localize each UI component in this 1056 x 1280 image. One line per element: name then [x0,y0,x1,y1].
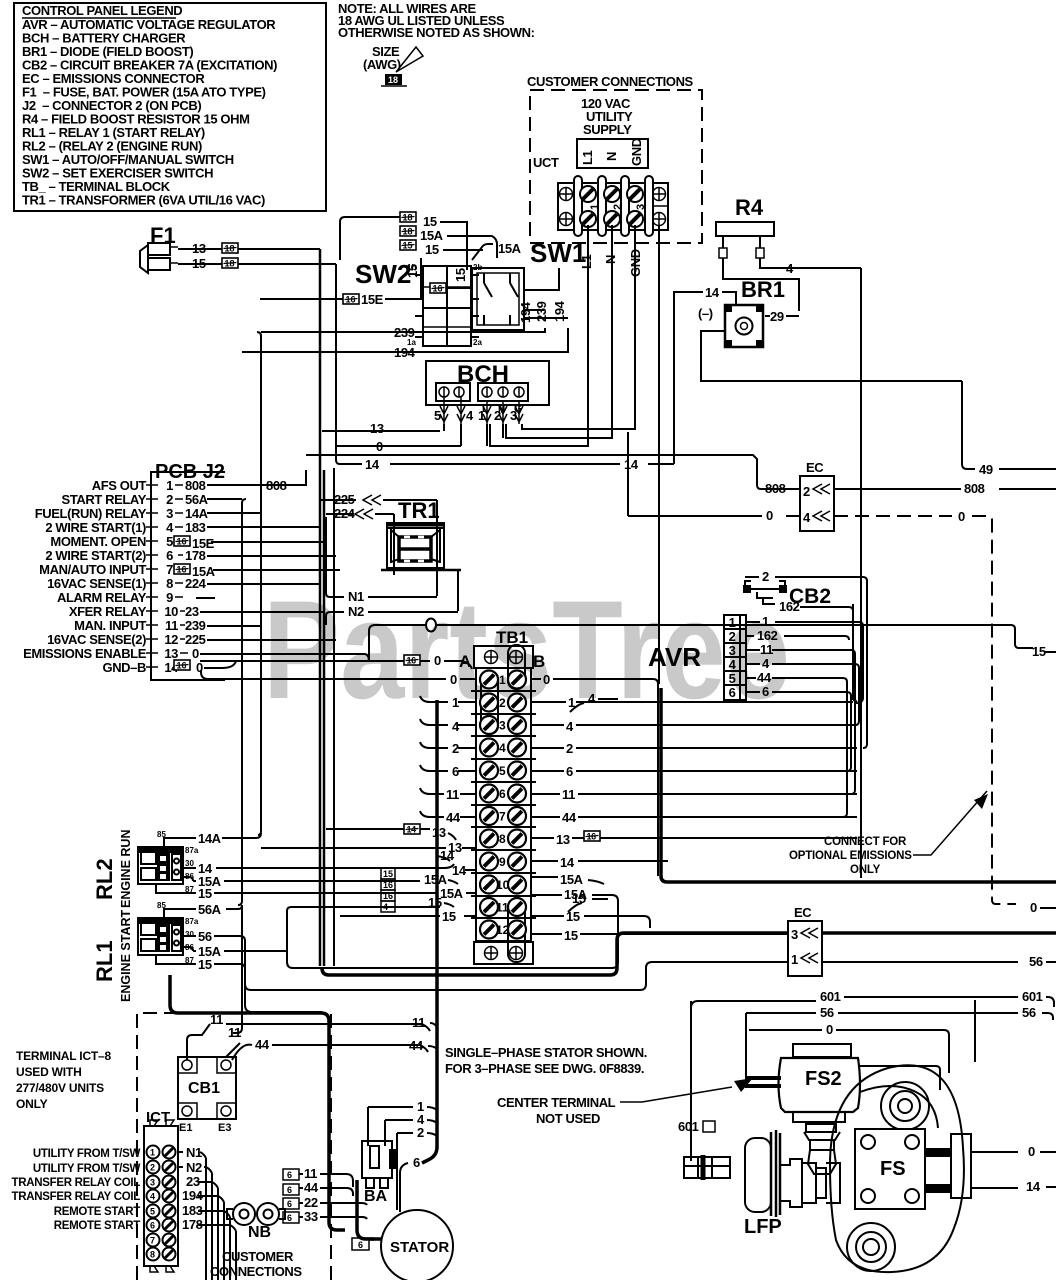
svg-text:1: 1 [791,952,798,967]
svg-text:49: 49 [979,462,993,477]
svg-text:ENGINE RUN: ENGINE RUN [119,830,133,908]
svg-text:MAN/AUTO INPUT: MAN/AUTO INPUT [39,562,146,577]
svg-text:CENTER TERMINAL: CENTER TERMINAL [497,1095,616,1110]
svg-text:SW2: SW2 [355,259,411,289]
svg-text:15E: 15E [361,292,384,307]
svg-text:44: 44 [562,810,577,825]
svg-text:ALARM RELAY: ALARM RELAY [57,590,147,605]
svg-text:15: 15 [423,214,437,229]
svg-text:MAN. INPUT: MAN. INPUT [74,618,146,633]
svg-text:6: 6 [413,1155,420,1170]
svg-text:0: 0 [1030,900,1037,915]
svg-text:194: 194 [518,301,533,323]
svg-text:6: 6 [729,685,736,700]
svg-text:808: 808 [185,478,206,493]
svg-text:10: 10 [164,604,178,619]
svg-text:14: 14 [705,285,720,300]
svg-text:277/480V UNITS: 277/480V UNITS [16,1081,104,1095]
svg-text:1: 1 [589,204,601,210]
svg-text:13: 13 [192,241,206,256]
svg-text:11: 11 [412,1015,425,1030]
svg-text:87a: 87a [185,846,199,855]
svg-text:15: 15 [192,256,206,271]
svg-text:1: 1 [452,695,459,710]
svg-text:0: 0 [450,672,457,687]
svg-text:183: 183 [185,520,206,535]
svg-text:NB: NB [248,1224,271,1241]
svg-text:13: 13 [432,825,446,840]
svg-text:4: 4 [383,902,388,912]
svg-text:601: 601 [678,1119,699,1134]
svg-text:15: 15 [198,957,212,972]
svg-text:56A: 56A [185,492,209,507]
svg-text:16: 16 [383,880,393,890]
svg-text:GND: GND [628,249,643,277]
svg-text:15: 15 [198,886,212,901]
svg-text:2: 2 [452,741,459,756]
svg-text:14: 14 [560,855,575,870]
svg-text:6: 6 [287,1170,292,1180]
svg-text:2: 2 [166,492,173,507]
svg-text:R4: R4 [735,195,764,220]
svg-text:6: 6 [358,1240,363,1250]
svg-text:5: 5 [166,534,173,549]
svg-text:BA: BA [364,1188,388,1205]
svg-text:CONNECT FOR: CONNECT FOR [824,836,907,848]
svg-text:16VAC SENSE(1): 16VAC SENSE(1) [47,576,146,591]
svg-text:LFP: LFP [744,1216,782,1238]
svg-text:N2: N2 [348,604,364,619]
svg-text:9: 9 [499,855,506,869]
svg-text:SW1: SW1 [530,238,586,268]
svg-text:EC: EC [794,905,812,920]
svg-text:GND–B: GND–B [102,660,146,675]
svg-text:11: 11 [760,642,773,657]
svg-text:5: 5 [499,764,506,778]
svg-text:4: 4 [786,261,794,276]
svg-text:1: 1 [499,673,506,687]
svg-text:UCT: UCT [533,155,559,170]
svg-text:L1: L1 [580,150,595,165]
svg-text:239: 239 [394,325,415,340]
svg-text:13: 13 [370,421,384,436]
svg-text:239: 239 [185,618,206,633]
svg-text:30: 30 [185,859,194,868]
svg-text:2: 2 [762,569,769,584]
svg-text:56: 56 [1029,954,1043,969]
svg-text:4: 4 [466,408,474,423]
svg-text:4: 4 [150,1192,155,1202]
svg-text:E1: E1 [179,1122,192,1134]
svg-text:56: 56 [820,1005,834,1020]
svg-text:194: 194 [394,345,416,360]
svg-text:2: 2 [417,1125,424,1140]
svg-text:CUSTOMER CONNECTIONS: CUSTOMER CONNECTIONS [527,74,694,89]
svg-text:11: 11 [496,901,509,915]
svg-text:OPTIONAL EMISSIONS: OPTIONAL EMISSIONS [789,850,912,862]
svg-text:2 WIRE START(2): 2 WIRE START(2) [45,548,146,563]
svg-text:4: 4 [588,691,596,706]
svg-text:7: 7 [499,810,506,824]
svg-text:8: 8 [150,1250,155,1260]
svg-text:OTHERWISE NOTED AS SHOWN:: OTHERWISE NOTED AS SHOWN: [338,25,535,40]
svg-text:3: 3 [510,408,517,423]
svg-text:15A: 15A [498,241,522,256]
svg-text:14: 14 [365,457,380,472]
svg-text:(–): (–) [698,306,713,321]
svg-text:4: 4 [499,741,506,755]
svg-text:224: 224 [185,576,207,591]
svg-text:N: N [604,152,619,161]
svg-text:601: 601 [820,989,841,1004]
svg-text:178: 178 [185,548,206,563]
svg-text:CONTROL PANEL LEGEND: CONTROL PANEL LEGEND [22,3,182,18]
svg-text:CB1: CB1 [188,1080,220,1097]
svg-text:14: 14 [1026,1179,1041,1194]
svg-text:7: 7 [150,1236,155,1246]
svg-text:44: 44 [409,1038,424,1053]
svg-text:162: 162 [757,628,778,643]
svg-text:4: 4 [566,719,574,734]
svg-text:0: 0 [1028,1144,1035,1159]
svg-text:1b: 1b [407,263,416,272]
svg-text:3: 3 [635,204,647,210]
svg-text:56A: 56A [198,902,222,917]
svg-text:1: 1 [729,615,736,630]
svg-text:2: 2 [729,629,736,644]
svg-text:USED WITH: USED WITH [16,1065,82,1079]
svg-text:CUSTOMER: CUSTOMER [222,1249,294,1264]
svg-text:12: 12 [164,632,178,647]
svg-text:UTILITY FROM T/SW: UTILITY FROM T/SW [33,1148,141,1160]
svg-text:AFS OUT: AFS OUT [92,478,147,493]
svg-text:15A: 15A [420,228,444,243]
svg-text:(AWG): (AWG) [363,57,401,72]
svg-text:14: 14 [624,457,639,472]
svg-text:1: 1 [478,408,485,423]
svg-text:ENGINE START: ENGINE START [119,910,133,1002]
svg-text:9: 9 [166,590,173,605]
svg-text:FS: FS [880,1158,906,1180]
svg-text:15: 15 [425,242,439,257]
svg-text:3: 3 [791,927,798,942]
svg-text:15: 15 [566,909,580,924]
svg-text:ONLY: ONLY [16,1097,48,1111]
svg-text:6: 6 [762,684,769,699]
svg-text:44: 44 [304,1180,319,1195]
svg-text:29: 29 [770,309,784,324]
svg-text:2: 2 [494,408,501,423]
svg-text:15A: 15A [440,886,464,901]
svg-text:SUPPLY: SUPPLY [583,122,632,137]
svg-text:23: 23 [185,604,199,619]
svg-text:44: 44 [255,1037,270,1052]
svg-text:5: 5 [729,671,736,686]
svg-text:0: 0 [766,508,773,523]
svg-text:BR1: BR1 [741,277,785,302]
svg-text:14A: 14A [185,506,209,521]
svg-text:6: 6 [287,1199,292,1209]
svg-text:87a: 87a [185,917,199,926]
svg-text:14: 14 [440,848,455,863]
svg-text:2: 2 [612,204,624,210]
svg-text:EC: EC [806,460,824,475]
svg-text:56: 56 [1022,1005,1036,1020]
svg-text:REMOTE START: REMOTE START [54,1220,141,1232]
svg-text:44: 44 [757,670,772,685]
svg-text:15: 15 [1032,644,1046,659]
svg-text:808: 808 [765,481,786,496]
svg-text:NOT USED: NOT USED [536,1111,600,1126]
svg-text:15A: 15A [560,872,584,887]
svg-text:E3: E3 [218,1122,231,1134]
svg-text:14A: 14A [198,831,222,846]
svg-text:6: 6 [150,1221,155,1231]
svg-text:15: 15 [442,909,456,924]
svg-text:B: B [533,652,545,671]
svg-text:SINGLE–PHASE STATOR SHOWN.: SINGLE–PHASE STATOR SHOWN. [445,1045,647,1060]
svg-text:TRANSFER RELAY COIL: TRANSFER RELAY COIL [12,1191,141,1203]
svg-text:N1: N1 [186,1145,202,1160]
svg-text:15: 15 [453,268,468,282]
svg-text:TRANSFER RELAY COIL: TRANSFER RELAY COIL [12,1177,141,1189]
svg-text:15: 15 [564,928,578,943]
svg-text:5: 5 [434,408,441,423]
svg-text:56: 56 [198,929,212,944]
svg-text:TERMINAL ICT–8: TERMINAL ICT–8 [16,1049,112,1063]
svg-text:REMOTE START: REMOTE START [54,1206,141,1218]
svg-text:2: 2 [803,484,810,499]
svg-text:12: 12 [496,923,510,937]
svg-text:6: 6 [566,764,573,779]
svg-text:1: 1 [762,614,769,629]
svg-text:18: 18 [388,75,398,85]
svg-text:TR1 – TRANSFORMER (6VA UTIL/16: TR1 – TRANSFORMER (6VA UTIL/16 VAC) [22,193,265,208]
svg-text:13: 13 [164,646,178,661]
svg-text:4: 4 [729,657,737,672]
svg-text:GND: GND [629,138,644,166]
svg-text:15: 15 [383,869,393,879]
svg-text:N: N [603,255,618,264]
svg-text:6: 6 [287,1213,292,1223]
svg-text:2a: 2a [473,338,482,347]
svg-text:4: 4 [166,520,174,535]
svg-text:6: 6 [499,787,506,801]
svg-text:3: 3 [166,506,173,521]
svg-text:2: 2 [566,741,573,756]
svg-text:0: 0 [543,672,550,687]
svg-text:22: 22 [304,1195,318,1210]
svg-text:8: 8 [166,576,173,591]
svg-text:FUEL(RUN) RELAY: FUEL(RUN) RELAY [35,506,147,521]
svg-text:MOMENT. OPEN: MOMENT. OPEN [50,534,146,549]
svg-text:23: 23 [186,1174,200,1189]
svg-text:6: 6 [287,1185,292,1195]
svg-text:11: 11 [165,618,178,633]
svg-text:1: 1 [150,1148,155,1158]
svg-text:2: 2 [150,1163,155,1173]
svg-text:808: 808 [964,481,985,496]
svg-text:225: 225 [185,632,206,647]
svg-text:N2: N2 [186,1160,202,1175]
svg-text:N1: N1 [348,589,364,604]
svg-text:ONLY: ONLY [850,864,881,876]
svg-text:3: 3 [150,1178,155,1188]
svg-text:808: 808 [266,478,287,493]
svg-text:FS2: FS2 [805,1068,842,1090]
svg-text:6: 6 [166,548,173,563]
svg-text:CONNECTIONS: CONNECTIONS [210,1264,302,1279]
svg-text:XFER RELAY: XFER RELAY [69,604,147,619]
svg-text:FOR 3–PHASE SEE DWG. 0F8839.: FOR 3–PHASE SEE DWG. 0F8839. [445,1061,644,1076]
svg-text:33: 33 [304,1209,318,1224]
svg-text:11: 11 [562,787,575,802]
svg-text:3: 3 [499,719,506,733]
svg-text:TB1: TB1 [496,628,528,647]
svg-text:3: 3 [729,643,736,658]
svg-text:5: 5 [150,1207,155,1217]
svg-text:F1: F1 [150,223,176,248]
svg-text:6: 6 [452,764,459,779]
svg-text:162: 162 [779,599,800,614]
svg-text:0: 0 [826,1022,833,1037]
svg-text:4: 4 [762,656,770,671]
svg-text:0: 0 [192,646,199,661]
svg-text:START RELAY: START RELAY [62,492,147,507]
svg-text:44: 44 [446,810,461,825]
svg-text:30: 30 [185,930,194,939]
svg-text:0: 0 [434,653,441,668]
svg-text:8: 8 [499,832,506,846]
svg-text:2 WIRE START(1): 2 WIRE START(1) [45,520,146,535]
svg-text:4: 4 [452,719,460,734]
svg-text:RL2: RL2 [92,858,117,900]
svg-text:RL1: RL1 [92,940,117,982]
svg-text:16: 16 [383,891,393,901]
svg-text:UTILITY FROM T/SW: UTILITY FROM T/SW [33,1163,141,1175]
svg-text:2: 2 [499,696,506,710]
svg-text:11: 11 [304,1166,317,1181]
svg-text:13: 13 [556,832,570,847]
svg-text:STATOR: STATOR [390,1239,449,1256]
svg-text:TR1: TR1 [398,498,440,523]
svg-text:AVR: AVR [648,642,701,672]
svg-text:601: 601 [1022,989,1043,1004]
svg-text:7: 7 [166,562,173,577]
svg-text:10: 10 [496,878,510,892]
svg-text:1: 1 [166,478,173,493]
svg-text:4: 4 [803,510,811,525]
svg-text:EMISSIONS ENABLE: EMISSIONS ENABLE [23,646,147,661]
svg-text:11: 11 [446,787,459,802]
svg-text:16VAC SENSE(2): 16VAC SENSE(2) [47,632,146,647]
svg-text:0: 0 [958,509,965,524]
